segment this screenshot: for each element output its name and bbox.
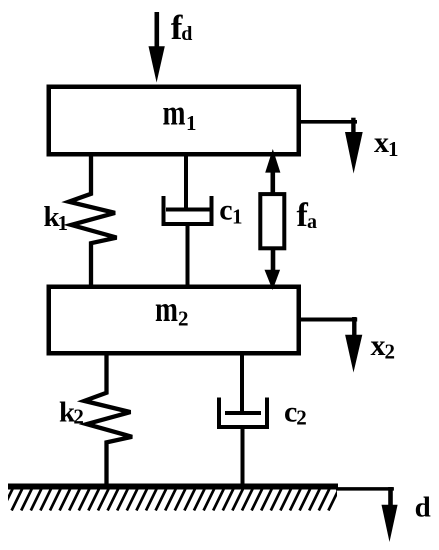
label c1 xyxy=(219,194,242,229)
label x2 xyxy=(371,329,396,363)
svg-text:2: 2 xyxy=(178,307,189,331)
svg-text:c: c xyxy=(219,194,232,227)
svg-text:2: 2 xyxy=(296,406,307,430)
svg-text:d: d xyxy=(181,23,192,45)
mass m1 xyxy=(49,87,299,155)
damper c1 xyxy=(164,154,212,287)
force arrow f_d xyxy=(149,12,165,83)
label x1 xyxy=(374,126,399,161)
ground xyxy=(2,484,339,511)
label f_a xyxy=(297,197,318,234)
displacement arrow x1 xyxy=(299,118,363,174)
svg-text:m: m xyxy=(163,93,186,133)
label m2 xyxy=(155,289,189,331)
label k1 xyxy=(44,201,69,235)
actuator f_a xyxy=(260,149,284,290)
road displacement arrow d xyxy=(336,487,398,542)
svg-text:d: d xyxy=(415,491,431,523)
label f_d xyxy=(171,8,193,47)
label c2 xyxy=(284,395,307,429)
damper c2 xyxy=(219,353,267,486)
spring k2 xyxy=(84,353,132,486)
svg-text:1: 1 xyxy=(232,205,243,229)
svg-text:1: 1 xyxy=(186,111,197,135)
mass m2 xyxy=(49,287,299,354)
svg-text:1: 1 xyxy=(388,137,399,161)
label m1 xyxy=(163,93,197,136)
svg-text:a: a xyxy=(307,211,317,233)
svg-text:2: 2 xyxy=(73,405,84,429)
svg-text:2: 2 xyxy=(385,339,396,363)
label k2 xyxy=(59,397,84,429)
svg-text:1: 1 xyxy=(58,211,69,235)
svg-text:x: x xyxy=(374,126,389,159)
displacement arrow x2 xyxy=(299,317,362,373)
spring k1 xyxy=(69,154,117,287)
svg-text:m: m xyxy=(155,289,178,329)
svg-text:x: x xyxy=(371,329,386,362)
